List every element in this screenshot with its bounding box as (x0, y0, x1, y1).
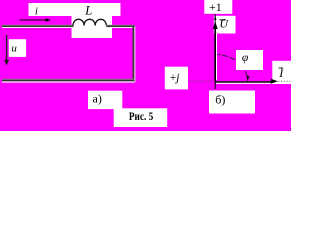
vector arrow above I (279, 67, 284, 69)
label box U (214, 16, 236, 34)
phasor U (vertical, up) (213, 22, 218, 81)
phasor I (horizontal, right) (215, 79, 278, 84)
svg-text:б): б) (215, 93, 225, 107)
wire bottom segment (2, 79, 135, 82)
label box b) (209, 91, 255, 114)
svg-text:u: u (11, 43, 17, 55)
label box behind inductor (72, 16, 113, 38)
svg-text:а): а) (93, 92, 102, 106)
vector arrow above U (220, 19, 227, 21)
label box I (272, 61, 291, 84)
label box for i and L (29, 3, 121, 16)
inductor L (73, 19, 106, 25)
label box a) (88, 91, 122, 109)
axis +1 vertical (214, 14, 216, 89)
svg-text:φ: φ (242, 52, 249, 64)
wire right vertical segment (133, 26, 135, 83)
axis +j dotted horizontal (189, 80, 291, 82)
svg-text:L: L (84, 4, 92, 18)
svg-text:+1: +1 (209, 0, 222, 14)
current arrow i (20, 18, 52, 22)
label box +j (165, 67, 188, 90)
wire top right segment (106, 25, 134, 27)
svg-text:+j: +j (170, 72, 180, 84)
angle arc phi (drawn under label boxes) (215, 55, 249, 82)
label box phi (236, 50, 263, 70)
axis +1 arrowhead (214, 15, 217, 20)
svg-text:Рис. 5: Рис. 5 (129, 111, 153, 123)
svg-text:U: U (219, 17, 229, 31)
caption box Рис. 5 (114, 108, 168, 127)
label box u (9, 39, 26, 57)
svg-text:i: i (35, 6, 38, 18)
label box +1 (204, 0, 232, 14)
voltage arrow u (points down) (4, 35, 9, 65)
wire top left segment (2, 25, 74, 27)
